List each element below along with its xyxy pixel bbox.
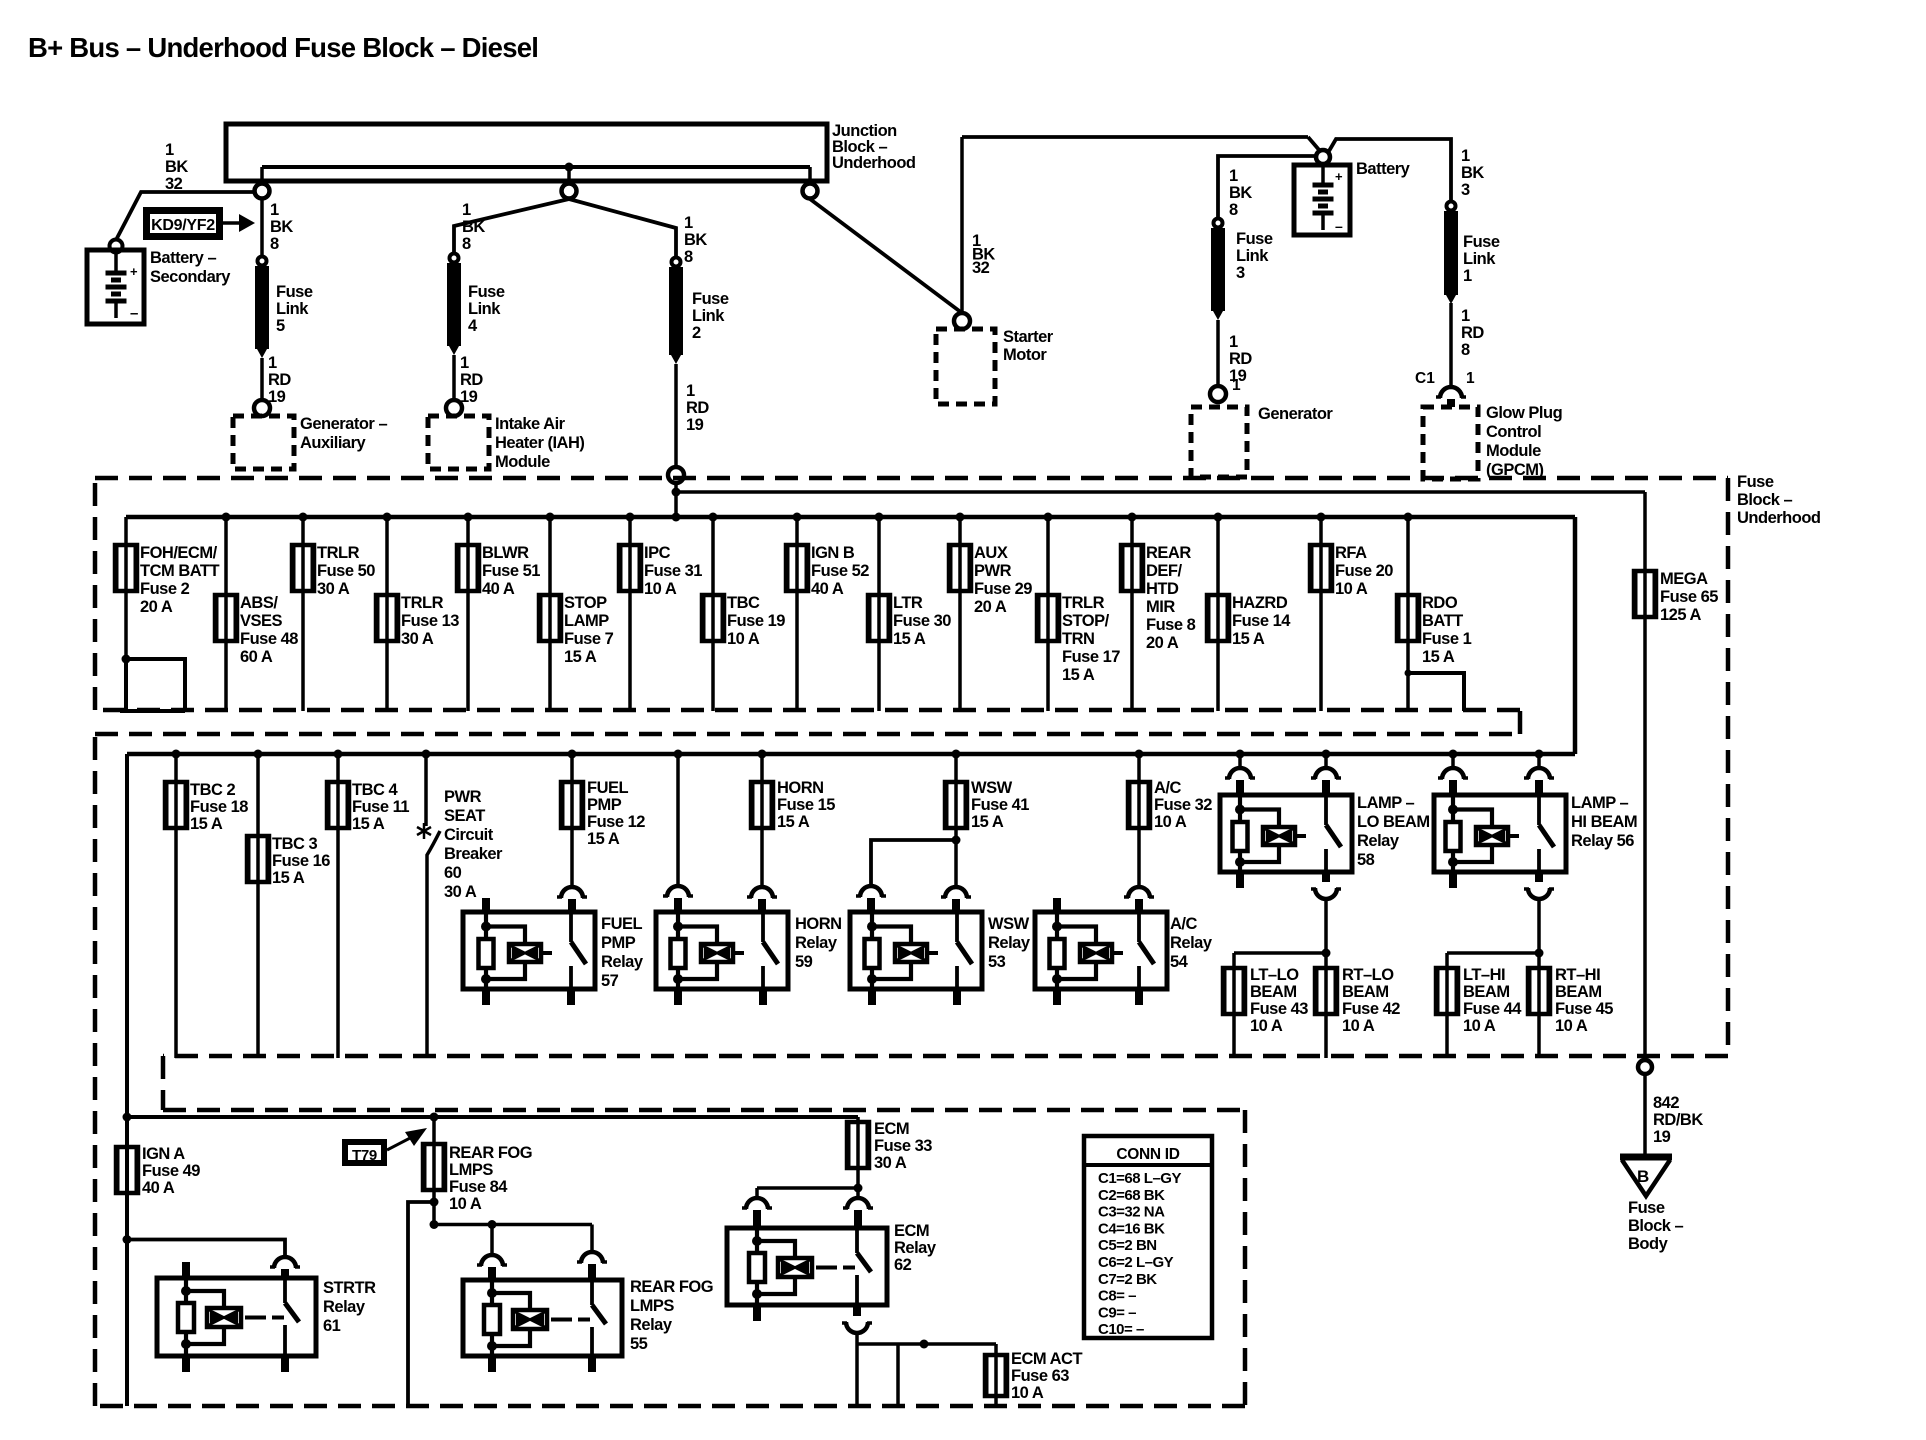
label WSW fuse xyxy=(971,779,1029,831)
node REAR FOG output xyxy=(430,1198,439,1207)
svg-text:842: 842 xyxy=(1653,1094,1679,1112)
wire FOH output loop xyxy=(120,659,185,711)
node TBC 3 fuse F16 on bus 2 xyxy=(254,750,263,759)
node LO beam branch xyxy=(1322,949,1331,958)
LAMP-LO relay coil bottom stub xyxy=(1236,872,1244,888)
junction block - underhood box xyxy=(226,124,827,181)
node TRLR STOP/TRN fuse F17 on bus 1 xyxy=(1044,513,1053,522)
node feed branch xyxy=(672,488,681,497)
wire junction block left to fuse link 5 xyxy=(260,199,264,257)
fuse link 5 xyxy=(255,257,269,359)
label ECM ACT fuse xyxy=(1011,1350,1082,1402)
svg-text:Intake Air: Intake Air xyxy=(495,415,566,433)
label STOP LAMP fuse F7 xyxy=(564,594,614,666)
svg-text:HORN: HORN xyxy=(795,915,842,933)
node A/C fuse on bus 2 xyxy=(1135,750,1144,759)
wire column RFA fuse F20 xyxy=(1319,517,1323,711)
svg-text:4: 4 xyxy=(468,317,478,335)
svg-text:Fuse 12: Fuse 12 xyxy=(587,813,645,831)
connector arc LAMP-HI switch xyxy=(1524,768,1554,796)
label LAMP-LO BEAM relay xyxy=(1357,794,1430,869)
wire column RDO BATT fuse F1 xyxy=(1406,517,1410,711)
label HAZRD fuse F14 xyxy=(1232,594,1291,648)
label REAR FOG LMPS fuse xyxy=(449,1144,532,1213)
IGN A fuse F49 xyxy=(116,1147,138,1193)
label STRTR relay xyxy=(323,1279,376,1335)
node RFA fuse F20 on bus 1 xyxy=(1317,513,1326,522)
svg-text:Link: Link xyxy=(276,300,309,318)
REAR FOG LMPS relay 55 xyxy=(463,1280,622,1356)
svg-text:20 A: 20 A xyxy=(974,598,1007,616)
svg-text:HTD: HTD xyxy=(1146,580,1179,598)
svg-text:59: 59 xyxy=(795,953,813,971)
svg-text:Starter: Starter xyxy=(1003,328,1054,346)
RT-LO BEAM fuse F42 xyxy=(1315,968,1337,1014)
svg-text:Fuse 19: Fuse 19 xyxy=(727,612,785,630)
svg-text:3: 3 xyxy=(1236,264,1245,282)
svg-text:Module: Module xyxy=(495,453,550,471)
IGN B fuse F52 xyxy=(786,545,808,591)
svg-text:FUEL: FUEL xyxy=(587,779,629,797)
label REAR DEF/HTD MIR fuse F8 xyxy=(1146,544,1196,652)
svg-text:PWR: PWR xyxy=(974,562,1012,580)
svg-text:BEAM: BEAM xyxy=(1250,983,1297,1001)
svg-text:8: 8 xyxy=(684,248,693,266)
svg-text:–: – xyxy=(130,305,138,322)
svg-text:STOP: STOP xyxy=(564,594,607,612)
TBC 4 fuse F11 xyxy=(327,782,349,828)
svg-text:Module: Module xyxy=(1486,442,1541,460)
wire ECM ACT branch xyxy=(857,1344,996,1406)
svg-text:58: 58 xyxy=(1357,851,1375,869)
wire column ABS/VSES fuse F48 xyxy=(224,517,228,711)
svg-text:Link: Link xyxy=(1236,247,1269,265)
HAZRD fuse F14 xyxy=(1207,595,1229,641)
svg-text:1: 1 xyxy=(460,354,469,372)
svg-text:54: 54 xyxy=(1170,953,1189,971)
junction block terminal stub left xyxy=(260,167,264,184)
svg-text:Relay: Relay xyxy=(894,1239,937,1257)
svg-text:15 A: 15 A xyxy=(587,830,620,848)
wire label 1 BK 8 (fuse link 5) xyxy=(270,201,293,253)
wire label 1 RD 19 (fuse link 2) xyxy=(686,382,709,434)
label IGN B fuse F52 xyxy=(811,544,869,598)
connector arc STRTR relay switch xyxy=(270,1257,300,1279)
svg-text:Fuse 8: Fuse 8 xyxy=(1146,616,1196,634)
node ABS/VSES fuse F48 on bus 1 xyxy=(222,513,231,522)
label TRLR fuse F13 xyxy=(401,594,459,648)
svg-text:C7=2 BK: C7=2 BK xyxy=(1098,1271,1157,1288)
title xyxy=(28,32,538,63)
junction block terminal stub right xyxy=(808,167,812,184)
fuse link 4 xyxy=(447,254,461,356)
svg-text:2: 2 xyxy=(692,324,701,342)
svg-text:Circuit: Circuit xyxy=(444,826,494,844)
wire MEGA column xyxy=(1643,571,1647,1060)
svg-text:Fuse 41: Fuse 41 xyxy=(971,796,1029,814)
svg-text:1: 1 xyxy=(270,201,279,219)
LAMP - LO BEAM relay 58 xyxy=(1220,795,1352,872)
svg-text:TBC 3: TBC 3 xyxy=(272,835,317,853)
wire column IGN B fuse F52 xyxy=(795,517,799,711)
svg-text:BLWR: BLWR xyxy=(482,544,529,562)
wire fuse link 2 to fuse block feed xyxy=(674,364,678,467)
svg-text:10 A: 10 A xyxy=(727,630,760,648)
svg-text:15 A: 15 A xyxy=(971,813,1004,831)
wire column TBC fuse F19 xyxy=(711,517,715,711)
node LAMP-LO switch on bus 2 xyxy=(1322,750,1331,759)
battery secondary label xyxy=(150,249,231,286)
generator auxiliary label xyxy=(300,415,387,452)
wire column TRLR fuse F50 xyxy=(301,517,305,711)
svg-text:15 A: 15 A xyxy=(1232,630,1265,648)
svg-text:Fuse 31: Fuse 31 xyxy=(644,562,702,580)
wire bus1 to bus2 right side xyxy=(1573,517,1578,754)
wire label 1 BK 32 (starter) xyxy=(972,232,995,277)
label LT-HI BEAM fuse xyxy=(1463,966,1522,1035)
svg-text:15 A: 15 A xyxy=(777,813,810,831)
wire LAMP-LO coil feed xyxy=(1238,754,1242,768)
wire feed branch to MEGA fuse xyxy=(676,492,1645,571)
svg-text:Fuse 16: Fuse 16 xyxy=(272,852,330,870)
LTR fuse F30 xyxy=(868,595,890,641)
svg-text:FUEL: FUEL xyxy=(601,915,643,933)
node RDO BATT fuse F1 on bus 1 xyxy=(1404,513,1413,522)
svg-text:40 A: 40 A xyxy=(482,580,515,598)
svg-text:C10= –: C10= – xyxy=(1098,1321,1144,1338)
battery label xyxy=(1356,160,1411,178)
svg-text:Glow Plug: Glow Plug xyxy=(1486,404,1562,422)
svg-text:IPC: IPC xyxy=(644,544,671,562)
svg-text:1: 1 xyxy=(686,382,695,400)
bus 2 xyxy=(127,752,1575,757)
wire REAR FOG relay feeds xyxy=(434,1225,592,1256)
svg-text:TBC 4: TBC 4 xyxy=(352,781,398,799)
label ECM fuse xyxy=(874,1120,932,1172)
svg-text:Battery –: Battery – xyxy=(150,249,216,267)
svg-text:15 A: 15 A xyxy=(1422,648,1455,666)
node LAMP-HI switch on bus 2 xyxy=(1535,750,1544,759)
wire LO beam branch xyxy=(1234,953,1326,1058)
label IGN A fuse xyxy=(142,1145,200,1197)
svg-text:Fuse: Fuse xyxy=(1463,233,1500,251)
wire label 1 RD 8 xyxy=(1461,307,1484,359)
intake air heater module box xyxy=(428,416,489,469)
MEGA fuse F65 xyxy=(1634,571,1656,617)
connector arc REAR FOG relay coil xyxy=(477,1255,507,1281)
label HORN relay xyxy=(795,915,842,971)
svg-text:HAZRD: HAZRD xyxy=(1232,594,1288,612)
node AUX PWR fuse F29 on bus 1 xyxy=(956,513,965,522)
svg-text:30 A: 30 A xyxy=(874,1154,907,1172)
FUEL PMP relay 57 xyxy=(463,912,595,989)
svg-text:62: 62 xyxy=(894,1256,912,1274)
svg-text:Secondary: Secondary xyxy=(150,268,231,286)
RDO BATT fuse F1 xyxy=(1397,595,1419,641)
node BLWR fuse F51 on bus 1 xyxy=(464,513,473,522)
svg-text:10 A: 10 A xyxy=(1011,1384,1044,1402)
svg-text:Fuse 13: Fuse 13 xyxy=(401,612,459,630)
svg-text:Fuse 20: Fuse 20 xyxy=(1335,562,1393,580)
label LTR fuse F30 xyxy=(893,594,951,648)
svg-text:LT–HI: LT–HI xyxy=(1463,966,1505,984)
generator - auxiliary box xyxy=(233,416,294,469)
wire label 1 BK 3 (fuse link 1) xyxy=(1461,147,1484,199)
svg-text:BK: BK xyxy=(684,231,707,249)
svg-text:A/C: A/C xyxy=(1170,915,1198,933)
node ECM ACT branch xyxy=(920,1340,929,1349)
wire column STOP LAMP fuse F7 xyxy=(548,517,552,711)
svg-text:Link: Link xyxy=(1463,250,1496,268)
svg-text:ECM ACT: ECM ACT xyxy=(1011,1350,1082,1368)
svg-text:LAMP –: LAMP – xyxy=(1357,794,1415,812)
battery secondary terminal circle xyxy=(110,240,123,253)
svg-text:T79: T79 xyxy=(352,1147,377,1164)
svg-text:20 A: 20 A xyxy=(140,598,173,616)
wire column BLWR fuse F51 xyxy=(466,517,470,711)
svg-text:15 A: 15 A xyxy=(564,648,597,666)
svg-text:DEF/: DEF/ xyxy=(1146,562,1183,580)
svg-text:Relay: Relay xyxy=(601,953,644,971)
svg-text:1: 1 xyxy=(1461,147,1470,165)
svg-text:10 A: 10 A xyxy=(1335,580,1368,598)
svg-text:+: + xyxy=(1335,169,1343,184)
wire LAMP-HI switch feed xyxy=(1537,754,1541,768)
svg-text:BK: BK xyxy=(165,158,188,176)
svg-text:3: 3 xyxy=(1461,181,1470,199)
fuse block - underhood label xyxy=(1737,473,1821,527)
svg-text:Fuse 50: Fuse 50 xyxy=(317,562,375,580)
svg-text:TCM BATT: TCM BATT xyxy=(140,562,220,580)
connector arc HORN relay coil xyxy=(663,886,693,913)
wire to fuse block body xyxy=(1643,1074,1647,1157)
svg-text:5: 5 xyxy=(276,317,285,335)
WSW fuse F41 xyxy=(945,782,967,828)
wire column REAR DEF/HTD MIR fuse F8 xyxy=(1130,517,1134,711)
wire label 1 RD 19 (fuse link 5) xyxy=(268,354,291,406)
svg-text:TRN: TRN xyxy=(1062,630,1094,648)
svg-text:RD: RD xyxy=(460,371,483,389)
svg-text:VSES: VSES xyxy=(240,612,283,630)
LAMP-LO relay switch output xyxy=(1311,872,1341,953)
label RT-LO BEAM fuse xyxy=(1342,966,1400,1035)
svg-text:20 A: 20 A xyxy=(1146,634,1179,652)
svg-text:BK: BK xyxy=(462,218,485,236)
HORN relay bottom stubs xyxy=(678,989,763,1005)
svg-text:Relay: Relay xyxy=(1170,934,1213,952)
svg-text:55: 55 xyxy=(630,1335,648,1353)
node IPC fuse F31 on bus 1 xyxy=(626,513,635,522)
svg-text:MEGA: MEGA xyxy=(1660,570,1708,588)
svg-text:Generator –: Generator – xyxy=(300,415,387,433)
svg-text:C3=32 NA: C3=32 NA xyxy=(1098,1204,1165,1221)
svg-text:Fuse 2: Fuse 2 xyxy=(140,580,190,598)
FUEL PMP relay bottom stubs xyxy=(486,989,571,1005)
wire column TBC 3 fuse F16 xyxy=(256,754,260,1058)
LT-LO BEAM fuse F43 xyxy=(1223,968,1245,1014)
svg-text:REAR: REAR xyxy=(1146,544,1191,562)
wire column IPC fuse F31 xyxy=(628,517,632,711)
svg-text:Generator: Generator xyxy=(1258,405,1333,423)
svg-text:8: 8 xyxy=(462,235,471,253)
svg-text:10 A: 10 A xyxy=(1154,813,1187,831)
svg-text:Relay 56: Relay 56 xyxy=(1571,832,1634,850)
svg-text:53: 53 xyxy=(988,953,1006,971)
svg-text:Fuse 43: Fuse 43 xyxy=(1250,1000,1308,1018)
svg-text:8: 8 xyxy=(1229,201,1238,219)
svg-text:Fuse 65: Fuse 65 xyxy=(1660,588,1718,606)
fuse link 2 xyxy=(669,258,683,365)
svg-text:Breaker: Breaker xyxy=(444,845,503,863)
svg-text:1: 1 xyxy=(1229,333,1238,351)
node bus3 left xyxy=(123,1113,132,1122)
IAH label xyxy=(495,415,584,471)
wire v-notch into battery positive xyxy=(1308,137,1451,201)
svg-text:Underhood: Underhood xyxy=(832,154,916,172)
svg-text:Heater (IAH): Heater (IAH) xyxy=(495,434,584,452)
svg-text:LMPS: LMPS xyxy=(630,1297,674,1315)
svg-text:–: – xyxy=(1335,218,1343,234)
svg-text:IGN A: IGN A xyxy=(142,1145,185,1163)
wire starter motor to battery positive xyxy=(962,137,1308,313)
node TRLR fuse F13 on bus 1 xyxy=(383,513,392,522)
wire REAR FOG fuse column xyxy=(432,1117,436,1225)
svg-text:8: 8 xyxy=(1461,341,1470,359)
svg-text:+: + xyxy=(130,264,138,279)
svg-text:Fuse: Fuse xyxy=(692,290,729,308)
T79 arrow xyxy=(387,1128,427,1150)
A/C relay coil stub xyxy=(1053,898,1061,913)
RFA fuse F20 xyxy=(1310,545,1332,591)
svg-text:RD: RD xyxy=(686,399,709,417)
svg-text:10 A: 10 A xyxy=(1555,1017,1588,1035)
svg-text:Fuse 42: Fuse 42 xyxy=(1342,1000,1400,1018)
wire column HAZRD fuse F14 xyxy=(1216,517,1220,711)
wire junction block middle to fuse link 2 xyxy=(569,199,676,258)
battery symbol xyxy=(1313,164,1344,234)
svg-text:15 A: 15 A xyxy=(352,815,385,833)
svg-text:Fuse 33: Fuse 33 xyxy=(874,1137,932,1155)
fuse block - underhood dashed outline xyxy=(95,478,1728,1406)
IAH terminal circle xyxy=(446,400,462,416)
svg-text:PMP: PMP xyxy=(587,796,622,814)
wire IGN A to STRTR relay switch xyxy=(127,1240,285,1258)
svg-text:1: 1 xyxy=(165,141,174,159)
connector arc ECM relay switch xyxy=(843,1198,873,1229)
node REAR FOG fuse on bus 3 xyxy=(430,1113,439,1122)
svg-text:Fuse 7: Fuse 7 xyxy=(564,630,614,648)
node REAR FOG relay feed xyxy=(430,1220,439,1229)
svg-text:61: 61 xyxy=(323,1317,341,1335)
label A/C relay xyxy=(1170,915,1213,971)
svg-text:8: 8 xyxy=(270,235,279,253)
svg-text:BEAM: BEAM xyxy=(1463,983,1510,1001)
A/C relay bottom stubs xyxy=(1057,989,1139,1005)
svg-text:B+ Bus – Underhood Fuse Block: B+ Bus – Underhood Fuse Block – Diesel xyxy=(28,32,538,63)
svg-text:AUX: AUX xyxy=(974,544,1008,562)
label A/C fuse xyxy=(1154,779,1212,831)
node HI beam branch xyxy=(1535,949,1544,958)
node PWR SEAT on bus 2 xyxy=(422,750,431,759)
TRLR fuse F13 xyxy=(376,595,398,641)
svg-text:1: 1 xyxy=(1463,267,1472,285)
node STOP LAMP fuse F7 on bus 1 xyxy=(546,513,555,522)
svg-text:Underhood: Underhood xyxy=(1737,509,1821,527)
label TRLR fuse F50 xyxy=(317,544,375,598)
fuse link 4 label xyxy=(468,283,505,335)
svg-text:30 A: 30 A xyxy=(401,630,434,648)
svg-text:1: 1 xyxy=(1229,167,1238,185)
svg-text:LTR: LTR xyxy=(893,594,923,612)
svg-text:Block –: Block – xyxy=(1628,1217,1684,1235)
svg-text:Fuse 14: Fuse 14 xyxy=(1232,612,1291,630)
wire label 1 RD 19 (fuse link 3) xyxy=(1229,333,1252,385)
wire fuse link 3 to generator xyxy=(1216,320,1220,386)
svg-text:BK: BK xyxy=(1229,184,1252,202)
A/C fuse F32 xyxy=(1128,782,1150,828)
bus 1 xyxy=(126,515,1575,520)
node RDO BATT output xyxy=(1405,670,1412,677)
svg-text:1: 1 xyxy=(1232,377,1241,394)
svg-text:Fuse: Fuse xyxy=(276,283,313,301)
HORN fuse F15 xyxy=(751,782,773,828)
svg-text:SEAT: SEAT xyxy=(444,807,485,825)
svg-text:LAMP: LAMP xyxy=(564,612,609,630)
wire label 842 RD/BK 19 xyxy=(1653,1094,1703,1146)
svg-text:TRLR: TRLR xyxy=(1062,594,1105,612)
svg-text:Fuse 11: Fuse 11 xyxy=(352,798,409,816)
svg-text:C2=68 BK: C2=68 BK xyxy=(1098,1187,1165,1204)
svg-text:Fuse 17: Fuse 17 xyxy=(1062,648,1120,666)
TBC 2 fuse F18 xyxy=(165,782,187,828)
connector arc WSW relay coil xyxy=(856,886,886,913)
KD9/YF2 tag box xyxy=(147,211,220,237)
LAMP - HI BEAM relay 56 xyxy=(1434,795,1566,872)
wire fuse link 4 to IAH module xyxy=(452,355,456,400)
svg-text:Fuse 49: Fuse 49 xyxy=(142,1162,200,1180)
svg-text:60: 60 xyxy=(444,864,462,882)
wire FUEL PMP fuse column xyxy=(570,754,574,887)
svg-text:Link: Link xyxy=(692,307,725,325)
battery secondary symbol xyxy=(106,252,139,322)
wire column FOH/ECM/TCM BATT fuse F2 xyxy=(124,517,128,659)
KD9/YF2 arrow xyxy=(223,214,255,232)
wire A/C fuse column xyxy=(1137,754,1141,887)
junction block node middle xyxy=(565,163,574,185)
svg-text:Relay: Relay xyxy=(988,934,1031,952)
TRLR fuse F50 xyxy=(292,545,314,591)
label RFA fuse F20 xyxy=(1335,544,1393,598)
wire WSW relay coil branch xyxy=(871,840,956,886)
label TRLR STOP/TRN fuse F17 xyxy=(1062,594,1120,684)
STRTR relay coil stub top xyxy=(182,1262,190,1279)
wire junction block middle to fuse link 4 xyxy=(454,199,569,254)
svg-text:Relay: Relay xyxy=(795,934,838,952)
svg-text:Battery: Battery xyxy=(1356,160,1411,178)
node IGN A branch xyxy=(123,1235,132,1244)
wire RDO BATT output loop xyxy=(1408,673,1464,711)
node REAR DEF/HTD MIR fuse F8 on bus 1 xyxy=(1128,513,1137,522)
TBC fuse F19 xyxy=(702,595,724,641)
wire column TBC 4 fuse F11 xyxy=(336,754,340,1058)
svg-text:TBC 2: TBC 2 xyxy=(190,781,235,799)
svg-text:Fuse: Fuse xyxy=(468,283,505,301)
battery positive terminal circle xyxy=(1316,150,1330,164)
label LAMP-HI BEAM relay xyxy=(1571,794,1637,850)
svg-text:LAMP –: LAMP – xyxy=(1571,794,1629,812)
svg-text:Block –: Block – xyxy=(1737,491,1793,509)
svg-text:C1=68 L–GY: C1=68 L–GY xyxy=(1098,1170,1181,1187)
